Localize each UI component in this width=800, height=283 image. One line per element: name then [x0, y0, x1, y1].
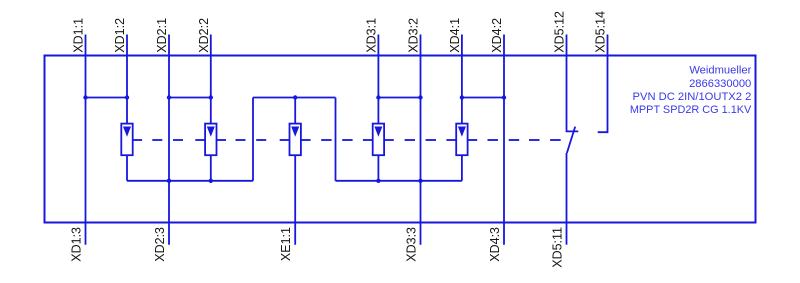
wire column XE1:1 upper [294, 98, 296, 126]
wire column XD5:12 upper with contact hook [567, 35, 579, 132]
svg-text:XD3:2: XD3:2 [407, 18, 421, 53]
junction dot XD1:1 top link [83, 95, 87, 99]
surge arrester 5 body [456, 124, 467, 156]
wire left riser [252, 98, 254, 181]
junction dot XD1:2 top link [125, 95, 129, 99]
wire bottom bus right [336, 180, 462, 182]
junction dot XD2:2 top link [209, 95, 213, 99]
svg-text:XE1:1: XE1:1 [279, 227, 293, 261]
wire top link XD3:1 to XD3:2 [378, 97, 420, 99]
junction dot XD3 bottom bus [418, 179, 422, 183]
surge arrester 1 body [121, 124, 132, 156]
svg-text:XD2:1: XD2:1 [155, 18, 169, 53]
wire column XD1:1 to XD1:3 [85, 35, 87, 245]
junction dot XD2:1 top link [167, 95, 171, 99]
svg-text:XD5:14: XD5:14 [594, 11, 608, 53]
svg-text:XD5:12: XD5:12 [553, 11, 567, 53]
junction dot arrester 2 bottom [209, 179, 213, 183]
wire right riser [335, 98, 337, 181]
wire top link XD2:1 to XD2:2 [169, 97, 211, 99]
wire arrester 1 lower lead [126, 155, 128, 181]
svg-text:XD4:3: XD4:3 [488, 227, 502, 262]
svg-text:XD3:3: XD3:3 [405, 227, 419, 262]
wire top link XD1:1 to XD1:2 [86, 97, 128, 99]
junction dot XD4:1 top link [460, 95, 464, 99]
svg-text:PVN DC 2IN/1OUTX2 2: PVN DC 2IN/1OUTX2 2 [633, 91, 752, 103]
svg-text:MPPT SPD2R CG 1.1KV: MPPT SPD2R CG 1.1KV [630, 104, 752, 116]
wire arrester 2 lower lead [210, 155, 212, 181]
svg-text:Weidmueller: Weidmueller [689, 65, 751, 77]
svg-text:XD1:1: XD1:1 [72, 18, 86, 53]
wire top link risers to node XE1 [253, 97, 336, 99]
wire top link XD4:1 to XD4:2 [462, 97, 504, 99]
wire column XD2:1 to XD2:3 [168, 35, 170, 245]
svg-text:XD2:3: XD2:3 [153, 227, 167, 262]
svg-text:2866330000: 2866330000 [689, 78, 751, 90]
svg-text:XD4:1: XD4:1 [448, 18, 462, 53]
junction dot arrester 4 bottom [376, 179, 380, 183]
wire column XE1:1 lower [294, 155, 296, 245]
wire arrester 4 lower lead [377, 155, 379, 181]
wire column XD4:2 to XD4:3 [503, 35, 505, 245]
svg-text:XD4:2: XD4:2 [490, 18, 504, 53]
wire column XD5:11 lower [566, 153, 568, 245]
mechanical link dashed line [133, 139, 561, 141]
wire column XD3:1 upper [377, 35, 379, 126]
junction dot XD4:2 top link [502, 95, 506, 99]
junction dot XD3:2 top link [418, 95, 422, 99]
svg-text:XD5:11: XD5:11 [551, 227, 565, 268]
wire column XD5:14 with hook [598, 35, 608, 133]
surge arrester 4 body [373, 124, 384, 156]
junction dot XD3:1 top link [376, 95, 380, 99]
wire bottom bus left [127, 180, 253, 182]
svg-text:XD1:3: XD1:3 [70, 227, 84, 262]
wire column XD4:1 upper [461, 35, 463, 126]
junction dot node XE1 [293, 95, 297, 99]
svg-text:XD2:2: XD2:2 [197, 18, 211, 53]
surge arrester 3 body [290, 124, 301, 156]
junction dot XD2 bottom bus [167, 179, 171, 183]
svg-text:XD1:2: XD1:2 [113, 18, 127, 53]
wire arrester 5 lower lead [461, 155, 463, 181]
wire column XD1:2 upper [126, 35, 128, 126]
wire column XD2:2 upper [210, 35, 212, 126]
wire column XD3:2 to XD3:3 [420, 35, 422, 245]
device outline box [45, 56, 756, 223]
surge arrester 2 body [205, 124, 216, 156]
switch blade [567, 127, 575, 153]
svg-text:XD3:1: XD3:1 [364, 18, 378, 53]
